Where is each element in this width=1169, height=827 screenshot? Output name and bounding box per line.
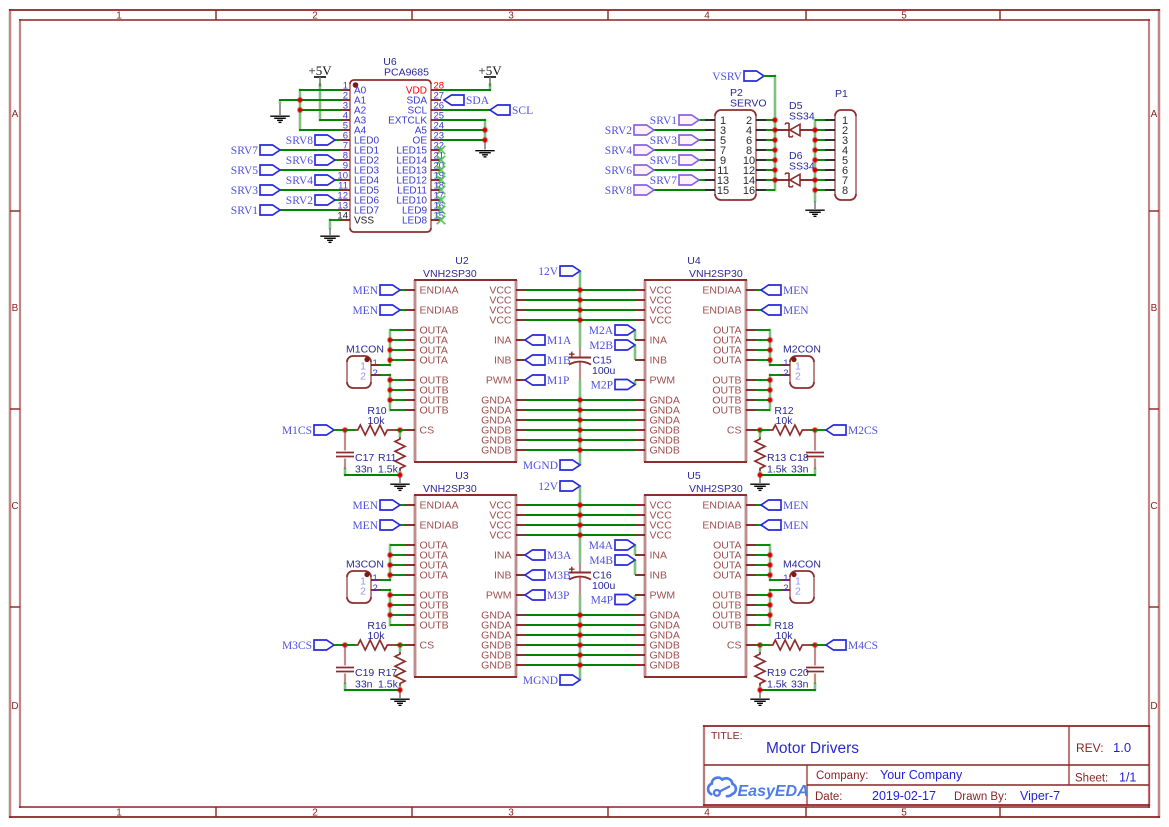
wire GND row 635 — [526, 634, 635, 636]
svg-text:2: 2 — [783, 583, 788, 594]
svg-text:SRV5: SRV5 — [231, 165, 258, 177]
svg-text:2: 2 — [373, 583, 378, 594]
svg-text:2: 2 — [373, 368, 378, 379]
U3 pin OUTA — [405, 550, 448, 562]
junction OUTB — [767, 592, 774, 599]
P1 pin 3 — [825, 135, 848, 147]
svg-text:SRV4: SRV4 — [286, 175, 313, 187]
wire P2 pin 4 to bus — [766, 129, 775, 131]
wire VCC row 300 — [526, 299, 635, 301]
U4 pin OUTA — [713, 355, 756, 367]
port flag MEN (U4) — [761, 305, 809, 317]
wire P1 pin 3 to bus — [815, 139, 825, 141]
svg-text:R13: R13 — [767, 452, 786, 464]
svg-text:SRV1: SRV1 — [231, 205, 258, 217]
wire M4CS node — [815, 644, 826, 646]
U6 pin 8 LED2 — [340, 151, 379, 167]
wire U2 OUTB bus — [381, 375, 405, 410]
svg-text:1.5k: 1.5k — [378, 464, 399, 476]
U5 pin VCC — [635, 530, 672, 542]
U6 pin 16 LED9 — [402, 201, 444, 217]
svg-text:SRV4: SRV4 — [605, 145, 632, 157]
svg-text:C: C — [1150, 501, 1157, 512]
svg-text:M1CS: M1CS — [282, 425, 312, 437]
port flag VSRV — [712, 71, 764, 83]
U3 pin PWM — [486, 590, 526, 602]
U5 pin GNDA — [635, 630, 680, 642]
svg-text:SRV2: SRV2 — [605, 125, 632, 137]
port flag MGND — [523, 460, 580, 472]
date and drawn-by text — [815, 789, 1060, 803]
svg-text:5: 5 — [901, 808, 907, 819]
port flag SCL — [490, 105, 533, 117]
svg-text:1.0: 1.0 — [1113, 740, 1131, 755]
U6 pin 22 LED15 — [396, 141, 444, 157]
U3 pin CS — [405, 640, 434, 652]
junction VCC bus — [577, 512, 584, 519]
svg-text:2: 2 — [795, 371, 801, 383]
junction OUTB — [767, 602, 774, 609]
junction OUTB — [767, 387, 774, 394]
svg-text:SRV2: SRV2 — [286, 195, 313, 207]
svg-text:R19: R19 — [767, 667, 786, 679]
wire 12V bus — [579, 271, 582, 348]
svg-text:3: 3 — [508, 808, 514, 819]
wire GND row 665 — [526, 664, 635, 666]
wire SRV4 to U6 — [335, 179, 340, 181]
wire MEN to U3 — [400, 524, 405, 526]
wire MGND bus — [579, 380, 582, 466]
wire P2 pin 10 to bus — [766, 159, 775, 161]
junction OUTB — [767, 397, 774, 404]
svg-text:SRV6: SRV6 — [605, 165, 632, 177]
junction GND bus — [577, 632, 584, 639]
U6 pin 9 LED3 — [340, 161, 379, 177]
U3 pin OUTB — [405, 610, 449, 622]
svg-text:M1A: M1A — [547, 335, 572, 347]
ground (CS right) — [750, 475, 769, 490]
wire U4 OUTA bus — [756, 330, 780, 365]
port flag M1B — [525, 355, 571, 367]
resistor R12 10k — [760, 425, 815, 435]
U4 pin VCC — [635, 295, 672, 307]
svg-text:PWM: PWM — [650, 375, 676, 387]
svg-text:Sheet:: Sheet: — [1075, 773, 1108, 785]
wire MGND bus — [579, 595, 582, 681]
port flag SRV5 (servo header) — [650, 155, 699, 167]
svg-text:10k: 10k — [368, 415, 386, 427]
svg-text:VSS: VSS — [354, 216, 374, 227]
P2 pin 6 — [746, 135, 766, 147]
svg-text:U2: U2 — [455, 255, 469, 267]
wire P1 pin 8 to bus — [815, 189, 825, 191]
wire M4A to INA — [634, 545, 637, 555]
svg-text:CS: CS — [727, 425, 742, 437]
R12 value label — [774, 405, 793, 427]
svg-text:10k: 10k — [776, 630, 794, 642]
svg-text:100u: 100u — [592, 580, 616, 592]
resistor R16 10k — [345, 640, 400, 650]
port flag 12V — [538, 481, 580, 493]
svg-text:4: 4 — [704, 808, 710, 819]
wire MEN to U5 — [756, 504, 761, 506]
port flag M2A — [589, 325, 635, 337]
junction GND bus — [577, 407, 584, 414]
U5 pin VCC — [635, 510, 672, 522]
P1 pin 7 — [825, 175, 848, 187]
wire U5 CS pin — [756, 644, 760, 646]
junction CS right — [812, 642, 819, 649]
P1 pin 6 — [825, 165, 848, 177]
no-connect X on U6 pin 18 — [437, 186, 445, 194]
svg-text:Motor Drivers: Motor Drivers — [766, 740, 859, 757]
U6 pin 17 LED10 — [396, 191, 444, 207]
svg-text:ENDIAB: ENDIAB — [702, 520, 741, 532]
svg-text:OUTA: OUTA — [713, 355, 741, 367]
junction OUTB — [387, 612, 394, 619]
svg-text:OUTA: OUTA — [420, 355, 448, 367]
U2 pin GNDB — [481, 445, 526, 457]
svg-text:5: 5 — [901, 11, 907, 22]
P2 pin 2 — [746, 115, 766, 127]
capacitor C20 33n — [806, 645, 824, 684]
svg-text:ENDIAA: ENDIAA — [702, 285, 741, 297]
wire P1 pin 7 to bus — [815, 179, 825, 181]
U6 pin 7 LED1 — [340, 141, 379, 157]
svg-text:33n: 33n — [355, 464, 373, 476]
U4 pin GNDA — [635, 395, 680, 407]
svg-text:3: 3 — [508, 11, 514, 22]
U5 pin VCC — [635, 520, 672, 532]
U5 reference designator label — [687, 470, 743, 495]
junction ground right — [757, 472, 764, 479]
P2 reference designator label — [730, 87, 767, 110]
svg-text:U4: U4 — [687, 255, 701, 267]
svg-text:INB: INB — [494, 570, 512, 582]
junction CS pin node left — [397, 427, 404, 434]
wire U3 OUTB bus — [381, 590, 405, 625]
wire P2 pin 2 to bus — [766, 119, 775, 121]
svg-text:100u: 100u — [592, 365, 616, 377]
U4 pin OUTA — [713, 325, 756, 337]
junction GND bus — [577, 427, 584, 434]
P2 pin 5 — [705, 135, 726, 147]
svg-text:ENDIAB: ENDIAB — [702, 305, 741, 317]
svg-text:M2A: M2A — [589, 325, 614, 337]
svg-text:MEN: MEN — [783, 305, 809, 317]
port flag M2P — [591, 380, 635, 392]
wire M2A to INA — [634, 330, 637, 340]
U2 pin OUTB — [405, 405, 449, 417]
power +5V symbol (right of U6) — [478, 63, 502, 87]
svg-text:ENDIAB: ENDIAB — [420, 305, 459, 317]
svg-text:A: A — [1151, 109, 1158, 120]
wire D5 leads — [775, 129, 815, 131]
U2 reference designator label — [423, 255, 477, 280]
wire VCC row 310 — [526, 309, 635, 311]
junction OUTA — [387, 337, 394, 344]
U6 reference designator label — [383, 56, 429, 79]
junction OUTA — [387, 572, 394, 579]
junction ground right — [757, 687, 764, 694]
port flag SRV7 (servo header) — [650, 175, 699, 187]
svg-text:OUTB: OUTB — [712, 620, 741, 632]
M3CON pin 2 — [360, 583, 381, 598]
port flag SRV2 (servo header) — [605, 125, 654, 137]
P2 pin 16 — [743, 185, 766, 197]
port flag M2B — [589, 340, 635, 352]
U3 pin OUTA — [405, 540, 448, 552]
svg-text:C19: C19 — [355, 667, 374, 679]
U3 pin GNDA — [481, 610, 526, 622]
svg-text:PWM: PWM — [486, 590, 512, 602]
no-connect X on U6 pin 19 — [437, 176, 445, 184]
U3 pin OUTB — [405, 590, 449, 602]
wire CS RC bottom left — [345, 469, 400, 475]
U3 pin INA — [494, 550, 526, 562]
IC U2 VNH2SP30 body — [414, 280, 517, 462]
wire P1 pin 2 to bus — [815, 129, 825, 131]
junction P1 pin 2 — [812, 127, 819, 134]
junction OUTA — [387, 552, 394, 559]
svg-text:4: 4 — [704, 11, 710, 22]
wire MEN to U2 — [400, 289, 405, 291]
U5 pin INB — [635, 570, 667, 582]
svg-text:+5V: +5V — [478, 63, 502, 78]
wire SRV6 to P2 — [654, 169, 705, 171]
wire SRV3 to P2 — [699, 139, 705, 141]
U5 pin OUTA — [713, 540, 756, 552]
wire GND row 450 — [526, 449, 635, 451]
wire SRV8 to P2 — [654, 189, 705, 191]
P1 pin 4 — [825, 145, 848, 157]
wire GND row 625 — [526, 624, 635, 626]
svg-text:VCC: VCC — [650, 315, 673, 327]
junction P1 pin 8 — [812, 187, 819, 194]
svg-text:SRV6: SRV6 — [286, 155, 313, 167]
junction OUTA — [767, 562, 774, 569]
no-connect X on U6 pin 16 — [437, 206, 445, 214]
svg-text:D: D — [1150, 701, 1157, 712]
svg-text:A: A — [12, 109, 19, 120]
svg-text:GNDB: GNDB — [650, 660, 680, 672]
P2 pin 4 — [746, 125, 766, 137]
U2 pin OUTA — [405, 345, 448, 357]
junction ground left — [397, 472, 404, 479]
ground (left of U6) — [270, 100, 289, 122]
wire GND row 645 — [526, 644, 635, 646]
U6 pin 4 A3 — [340, 111, 367, 127]
U2 pin GNDA — [481, 405, 526, 417]
wire SRV2 to P2 — [654, 129, 705, 131]
port flag SRV7 — [231, 145, 280, 157]
wire P1 pin 5 to bus — [815, 159, 825, 161]
U4 pin OUTA — [713, 335, 756, 347]
R19 C20 value labels — [767, 667, 809, 691]
P1 pin 5 — [825, 155, 848, 167]
wire VCC row 320 — [526, 319, 635, 321]
wire GND row 420 — [526, 419, 635, 421]
U6 pin 6 LED0 — [340, 131, 379, 147]
wire M2CS node — [815, 429, 826, 431]
wire MEN to U4 — [756, 309, 761, 311]
wire CS RC bottom right — [760, 684, 815, 690]
U4 pin GNDB — [635, 445, 680, 457]
svg-text:MEN: MEN — [352, 500, 378, 512]
U2 pin VCC — [489, 315, 526, 327]
wire M4B to INB — [634, 560, 637, 575]
svg-text:33n: 33n — [355, 679, 373, 691]
svg-text:M3B: M3B — [547, 570, 571, 582]
svg-text:SRV8: SRV8 — [605, 185, 632, 197]
U6 pin 1 A0 — [340, 81, 367, 97]
svg-text:SRV5: SRV5 — [650, 155, 677, 167]
U6 pin 27 SDA — [406, 91, 444, 107]
svg-text:M1B: M1B — [547, 355, 571, 367]
U3 pin ENDIAB — [405, 520, 459, 532]
port flag MEN (U4) — [761, 285, 809, 297]
wire SRV8 to U6 — [335, 139, 340, 141]
svg-text:M2P: M2P — [591, 380, 613, 392]
company text — [816, 768, 963, 782]
port flag M1P — [525, 375, 569, 387]
port flag M3A — [525, 550, 572, 562]
ground (CS right) — [750, 690, 769, 705]
svg-text:PCA9685: PCA9685 — [384, 67, 429, 79]
wire GND row 430 — [526, 429, 635, 431]
U2 pin CS — [405, 425, 434, 437]
junction node A2 — [297, 107, 304, 114]
P1 pin 8 — [825, 185, 848, 197]
junction P1 pin 3 — [812, 137, 819, 144]
junction VCC bus — [577, 522, 584, 529]
junction OUTA — [767, 357, 774, 364]
svg-text:+5V: +5V — [308, 63, 332, 78]
port flag SRV1 (servo header) — [650, 115, 699, 127]
U2 pin GNDB — [481, 425, 526, 437]
svg-text:MGND: MGND — [523, 675, 558, 687]
U2 pin ENDIAB — [405, 305, 459, 317]
svg-text:GNDB: GNDB — [481, 660, 511, 672]
junction CS right — [812, 427, 819, 434]
U6 pin 11 LED5 — [338, 181, 379, 197]
svg-text:VSRV: VSRV — [712, 71, 742, 83]
EasyEDA logo — [708, 778, 809, 800]
U5 pin GNDA — [635, 620, 680, 632]
wire to U3 CS pin — [400, 644, 405, 646]
U3 pin VCC — [489, 510, 526, 522]
U4 pin OUTB — [712, 375, 756, 387]
svg-text:LED8: LED8 — [402, 216, 427, 227]
svg-text:VNH2SP30: VNH2SP30 — [689, 483, 743, 495]
svg-text:2: 2 — [312, 11, 318, 22]
wire M1CS node — [334, 429, 345, 431]
no-connect X on U6 pin 17 — [437, 196, 445, 204]
connector M3CON body — [347, 571, 371, 603]
svg-text:Drawn By:: Drawn By: — [954, 791, 1007, 803]
junction node OE — [482, 137, 489, 144]
svg-text:2: 2 — [783, 368, 788, 379]
C19 R17 value labels — [355, 667, 399, 691]
U3 pin OUTA — [405, 560, 448, 572]
U3 pin GNDA — [481, 620, 526, 632]
connector P2 body — [715, 110, 756, 200]
svg-text:INA: INA — [650, 335, 668, 347]
U2 pin GNDB — [481, 435, 526, 447]
U5 pin PWM — [635, 590, 675, 602]
junction P1 pin 7 — [812, 177, 819, 184]
connector M4CON body — [790, 571, 814, 603]
svg-text:M1P: M1P — [547, 375, 569, 387]
svg-text:INB: INB — [650, 570, 668, 582]
U2 pin PWM — [486, 375, 526, 387]
port flag SRV8 (servo header) — [605, 185, 654, 197]
svg-text:SDA: SDA — [466, 95, 490, 107]
junction VCC bus — [577, 307, 584, 314]
U4 pin OUTB — [712, 405, 756, 417]
svg-text:C: C — [11, 501, 18, 512]
U3 pin OUTB — [405, 600, 449, 612]
U3 pin GNDA — [481, 630, 526, 642]
svg-text:Viper-7: Viper-7 — [1020, 789, 1060, 803]
port flag M1CS — [282, 425, 334, 437]
U5 pin GNDB — [635, 660, 680, 672]
capacitor C19 33n — [336, 645, 354, 684]
U2 pin GNDA — [481, 395, 526, 407]
junction OUTB — [767, 377, 774, 384]
svg-text:CS: CS — [420, 425, 435, 437]
svg-text:1.5k: 1.5k — [378, 679, 399, 691]
svg-text:10k: 10k — [776, 415, 794, 427]
svg-text:M3P: M3P — [547, 590, 569, 602]
svg-text:SS34: SS34 — [789, 111, 815, 123]
IC U5 VNH2SP30 body — [644, 495, 747, 677]
U2 pin OUTA — [405, 325, 448, 337]
U6 pin 20 LED13 — [396, 161, 444, 177]
svg-text:M4CON: M4CON — [783, 559, 821, 571]
svg-text:Company:: Company: — [816, 770, 868, 782]
svg-text:OUTB: OUTB — [712, 405, 741, 417]
svg-text:PWM: PWM — [650, 590, 676, 602]
U6 pin 15 LED8 — [402, 211, 444, 227]
junction GND bus — [577, 622, 584, 629]
U4 pin ENDIAA — [702, 285, 756, 297]
U3 pin ENDIAA — [405, 500, 459, 512]
svg-text:M4B: M4B — [589, 555, 613, 567]
junction GND bus — [577, 652, 584, 659]
U6 pin 12 LED6 — [337, 191, 379, 207]
title text — [711, 730, 859, 757]
svg-text:Date:: Date: — [815, 791, 843, 803]
junction CS pin node right — [757, 427, 764, 434]
P1 pin 2 — [825, 125, 848, 137]
junction CS left — [342, 642, 349, 649]
svg-text:M4P: M4P — [591, 595, 613, 607]
svg-text:SRV7: SRV7 — [650, 175, 677, 187]
svg-text:SRV3: SRV3 — [231, 185, 258, 197]
svg-text:SERVO: SERVO — [730, 98, 767, 110]
junction OUTA — [767, 337, 774, 344]
port flag 12V — [538, 266, 580, 278]
R10 value label — [367, 405, 386, 427]
U3 pin GNDB — [481, 640, 526, 652]
svg-text:MGND: MGND — [523, 460, 558, 472]
P1 pin 1 — [825, 115, 848, 127]
junction GND bus — [577, 447, 584, 454]
svg-text:2: 2 — [795, 586, 801, 598]
port flag SRV4 (servo header) — [605, 145, 654, 157]
svg-text:MEN: MEN — [352, 305, 378, 317]
